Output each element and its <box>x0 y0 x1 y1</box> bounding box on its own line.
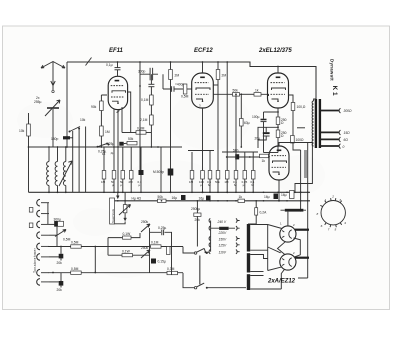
svg-text:300µ: 300µ <box>54 217 62 221</box>
svg-text:250k: 250k <box>141 246 149 250</box>
svg-text:2M: 2M <box>129 180 134 184</box>
svg-text:16µ: 16µ <box>172 196 178 200</box>
svg-text:0,5M: 0,5M <box>181 95 189 99</box>
svg-text:0,2A: 0,2A <box>260 211 268 215</box>
svg-text:1M: 1M <box>224 180 229 184</box>
svg-text:16µ: 16µ <box>281 193 287 197</box>
svg-text:0,5M: 0,5M <box>71 267 79 271</box>
svg-text:2xA/EZ12: 2xA/EZ12 <box>267 279 296 285</box>
svg-text:250k: 250k <box>141 220 149 224</box>
svg-text:300p: 300p <box>138 70 146 74</box>
svg-text:5: 5 <box>335 228 337 232</box>
svg-text:6Ω: 6Ω <box>344 138 349 142</box>
svg-text:110V: 110V <box>219 251 227 255</box>
svg-text:1M: 1M <box>189 180 194 184</box>
svg-text:1k: 1k <box>262 159 266 163</box>
svg-text:50k: 50k <box>215 180 220 184</box>
svg-text:125V: 125V <box>219 244 228 248</box>
svg-text:255µ: 255µ <box>34 100 42 104</box>
svg-text:K 1: K 1 <box>331 86 338 97</box>
svg-text:0,1µ: 0,1µ <box>106 63 113 67</box>
svg-text:0: 0 <box>343 145 345 149</box>
svg-text:ECF12: ECF12 <box>194 48 213 54</box>
svg-text:250kµ: 250kµ <box>191 207 200 211</box>
svg-text:M.500p: M.500p <box>153 170 164 174</box>
svg-text:0,5M: 0,5M <box>63 238 71 242</box>
svg-text:90k: 90k <box>91 105 97 109</box>
svg-text:0,15µ: 0,15µ <box>158 260 166 264</box>
svg-text:0,8M: 0,8M <box>137 127 145 131</box>
svg-text:240 V: 240 V <box>217 220 227 224</box>
svg-text:Tonabnehmer: Tonabnehmer <box>33 247 37 273</box>
svg-text:2xEL12/375: 2xEL12/375 <box>258 48 292 54</box>
svg-text:6: 6 <box>321 224 323 228</box>
svg-text:1: 1 <box>325 198 327 202</box>
svg-text:50k: 50k <box>233 89 239 93</box>
svg-text:4: 4 <box>344 221 346 225</box>
svg-text:7: 7 <box>328 228 330 232</box>
svg-text:Sperrkreis: Sperrkreis <box>111 208 115 223</box>
svg-text:0,3M: 0,3M <box>167 267 175 271</box>
svg-text:20k: 20k <box>57 288 63 292</box>
svg-text:1M: 1M <box>101 180 106 184</box>
svg-text:220V: 220V <box>218 231 228 235</box>
svg-text:2: 2 <box>331 195 334 199</box>
svg-text:3: 3 <box>339 198 341 202</box>
svg-text:150V: 150V <box>219 237 228 241</box>
svg-text:1k: 1k <box>255 89 259 93</box>
svg-text:2M: 2M <box>222 74 227 78</box>
svg-text:16µ: 16µ <box>264 195 270 199</box>
svg-text:2,1M: 2,1M <box>140 118 148 122</box>
svg-text:Dynawatt: Dynawatt <box>330 59 335 81</box>
svg-text:0,1W: 0,1W <box>123 232 132 236</box>
svg-text:0,1M: 0,1M <box>141 98 149 102</box>
svg-text:0,5M: 0,5M <box>71 241 79 245</box>
svg-text:0,1M: 0,1M <box>151 241 159 245</box>
svg-text:100,Ω: 100,Ω <box>297 105 306 109</box>
svg-text:0,25µ: 0,25µ <box>158 226 166 230</box>
svg-text:10k: 10k <box>80 118 86 122</box>
svg-text:16µ: 16µ <box>199 196 205 200</box>
svg-text:20µ: 20µ <box>255 137 261 141</box>
svg-text:EF11: EF11 <box>109 48 124 54</box>
svg-text:Hµ 4Ω: Hµ 4Ω <box>132 196 142 200</box>
svg-text:0,25µ: 0,25µ <box>106 142 114 146</box>
svg-text:63µ: 63µ <box>244 121 250 125</box>
svg-text:100µ: 100µ <box>252 115 260 119</box>
svg-text:2M: 2M <box>175 74 180 78</box>
svg-text:0,1W: 0,1W <box>122 249 131 253</box>
svg-text:15Ω: 15Ω <box>344 131 351 135</box>
svg-text:50k: 50k <box>128 137 134 141</box>
svg-text:300Ω: 300Ω <box>344 109 353 113</box>
svg-text:50k: 50k <box>158 195 164 199</box>
svg-text:10k: 10k <box>19 129 25 133</box>
svg-text:1k: 1k <box>239 195 243 199</box>
svg-text:20k: 20k <box>57 261 63 265</box>
svg-text:8: 8 <box>317 212 319 216</box>
svg-text:1M: 1M <box>105 130 110 134</box>
svg-text:150p: 150p <box>51 137 59 141</box>
svg-text:100Ω: 100Ω <box>296 138 305 142</box>
